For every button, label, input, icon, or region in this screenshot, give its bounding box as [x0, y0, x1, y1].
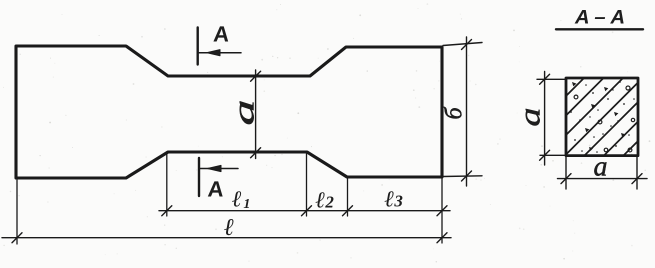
svg-text:б: б: [442, 107, 468, 120]
svg-text:A: A: [213, 22, 231, 47]
svg-text:a: a: [228, 100, 261, 126]
specimen outline (dogbone plan view): [16, 46, 442, 178]
svg-text:ℓ: ℓ: [224, 215, 234, 241]
dimension b (right, vertical): [443, 37, 482, 186]
dimension a (section, bottom): [558, 157, 648, 189]
section square outline: [566, 78, 638, 156]
dimension a (middle, vertical): [251, 70, 261, 159]
section cut mark A (lower): [199, 158, 238, 196]
hatch lines (concrete section): [566, 78, 638, 156]
dimension line l1 l2 l3: [159, 206, 450, 216]
section cut mark A (upper): [198, 28, 241, 65]
svg-text:A: A: [207, 177, 225, 202]
svg-text:a: a: [514, 108, 547, 127]
extension lines for l1 l2 l3: [167, 154, 442, 244]
dimension line l (overall): [2, 180, 451, 244]
svg-text:A – A: A – A: [574, 8, 625, 29]
svg-text:a: a: [594, 152, 608, 183]
concrete texture: triangles, circles, specks: [572, 82, 625, 151]
dimension a (section, left): [537, 72, 566, 166]
